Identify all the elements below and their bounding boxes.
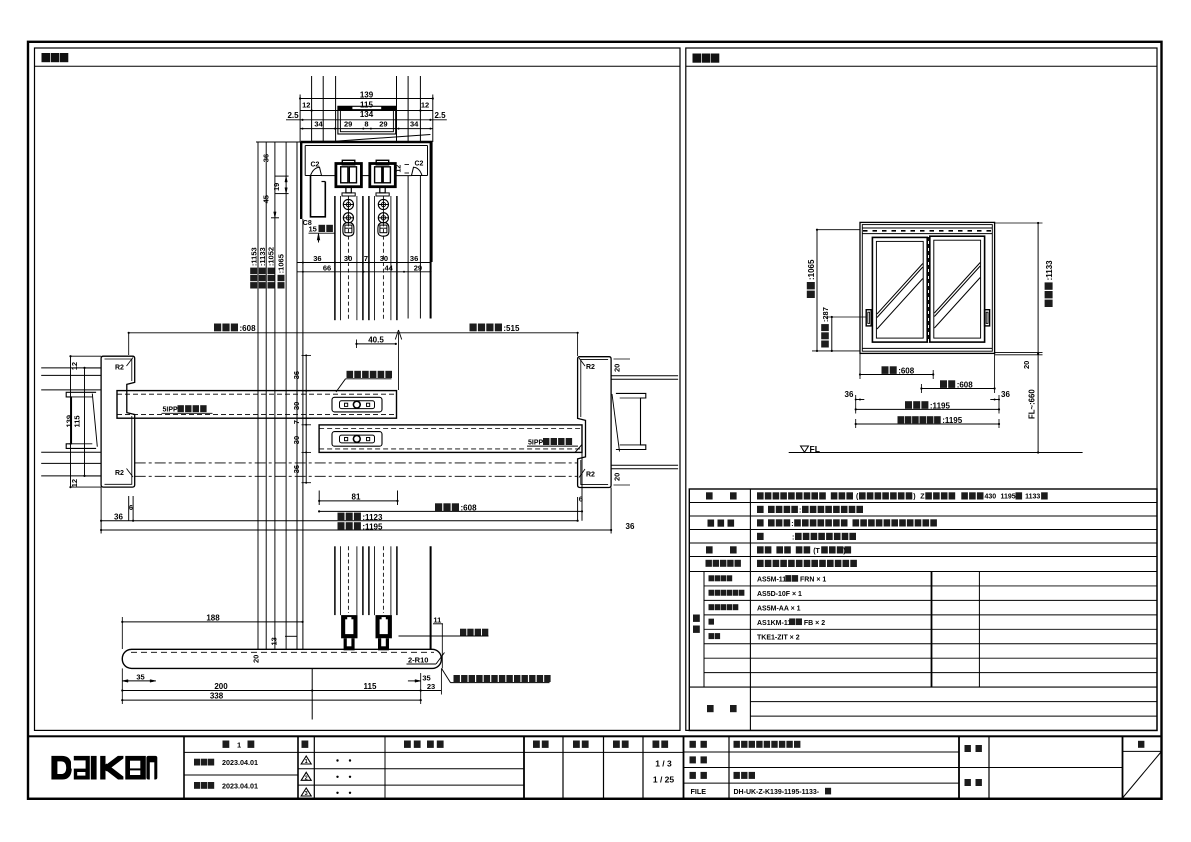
svg-text::515: :515 bbox=[503, 324, 520, 333]
svg-text:200: 200 bbox=[214, 682, 228, 691]
left wall stud C-channel bbox=[66, 392, 96, 448]
svg-text:1: 1 bbox=[237, 740, 241, 749]
window outer frame bbox=[860, 222, 995, 353]
svg-text:45: 45 bbox=[262, 195, 271, 203]
title 第1版 header bbox=[223, 741, 230, 748]
revision triangles bbox=[301, 756, 311, 764]
svg-text:115: 115 bbox=[364, 682, 377, 691]
dim 200 bbox=[122, 690, 312, 692]
revision rows bbox=[298, 768, 524, 770]
rotated height labels bbox=[250, 282, 257, 288]
備考 label bbox=[707, 705, 714, 712]
svg-text:30: 30 bbox=[292, 402, 301, 410]
svg-text:188: 188 bbox=[206, 613, 220, 622]
svg-text:1195: 1195 bbox=[1001, 494, 1016, 501]
roller hanger left bbox=[336, 164, 362, 187]
svg-text:FL~:660: FL~:660 bbox=[1028, 389, 1037, 419]
svg-text:2023.04.01: 2023.04.01 bbox=[222, 781, 258, 790]
svg-text:8: 8 bbox=[364, 119, 368, 128]
svg-text::: : bbox=[792, 534, 794, 541]
title block verticals bbox=[183, 736, 185, 798]
svg-text:1: 1 bbox=[305, 759, 308, 765]
plan bottom dim 81 bbox=[319, 500, 397, 502]
label 窓幅:608 plan top bbox=[214, 324, 221, 332]
svg-text:FRN × 1: FRN × 1 bbox=[800, 577, 826, 584]
upper sliding rail bar bbox=[117, 391, 397, 419]
spec table outer bbox=[689, 489, 1157, 731]
right wall break slash bbox=[612, 394, 620, 452]
dim line 139 vertical bbox=[70, 356, 72, 487]
svg-text:AS1KM-11: AS1KM-11 bbox=[757, 620, 791, 627]
right panel frame (front view) bbox=[686, 48, 1157, 730]
left wall lines upper section bbox=[296, 142, 298, 649]
lower sliding rail bar bbox=[319, 425, 582, 453]
right title rows bbox=[684, 751, 960, 753]
FL marker bbox=[801, 446, 809, 452]
right jamb inner line bbox=[581, 360, 608, 417]
head bottom left corner trim C2 bbox=[305, 167, 321, 175]
right height dim line 枠外高1133 bbox=[1037, 223, 1039, 453]
dim 139 top bbox=[300, 98, 433, 100]
svg-text:19: 19 bbox=[272, 183, 281, 191]
svg-text::1065: :1065 bbox=[807, 259, 816, 280]
title 承認検図作成縮尺 headers bbox=[533, 741, 540, 748]
svg-text:34: 34 bbox=[314, 119, 323, 128]
svg-text:AS5D-10F × 1: AS5D-10F × 1 bbox=[757, 591, 802, 598]
dim 13 rotated bbox=[285, 635, 297, 637]
right wall furring lines bbox=[407, 176, 409, 319]
head bottom line segments bbox=[322, 175, 336, 177]
dim 23 bbox=[421, 690, 442, 692]
note カウンター（メラミンポストフォーム） bbox=[442, 668, 451, 682]
roller hanger left stem bbox=[346, 187, 351, 193]
dim line 115 row bbox=[300, 110, 433, 112]
right sash panel bbox=[930, 236, 985, 342]
svg-text:35: 35 bbox=[136, 672, 144, 681]
svg-text:R2: R2 bbox=[115, 470, 124, 477]
svg-text:29: 29 bbox=[414, 263, 422, 272]
revision date dots bbox=[336, 759, 338, 761]
svg-text:134: 134 bbox=[360, 110, 374, 119]
window bottom rail band bbox=[862, 347, 992, 349]
title 名称 row bbox=[690, 741, 696, 748]
head frame inner cavity bbox=[305, 145, 427, 147]
spec row 形式 bbox=[706, 492, 713, 499]
right wall stud C-channel bbox=[616, 393, 646, 449]
title header row line bbox=[184, 751, 684, 753]
svg-text:36: 36 bbox=[313, 254, 321, 263]
svg-text:5IPP: 5IPP bbox=[528, 439, 544, 446]
svg-text:20: 20 bbox=[1022, 361, 1031, 369]
title 頁 bbox=[1138, 741, 1144, 748]
svg-text::1195: :1195 bbox=[362, 523, 383, 532]
svg-text:40.5: 40.5 bbox=[368, 335, 384, 344]
dim 40.5 bbox=[357, 343, 396, 345]
svg-text:2.5: 2.5 bbox=[434, 111, 446, 120]
svg-text::1065: :1065 bbox=[277, 254, 286, 273]
title 改訂日 row bbox=[194, 782, 200, 789]
svg-text::1052: :1052 bbox=[267, 247, 276, 266]
title 制定日 row bbox=[194, 759, 200, 766]
panel screw stack right bbox=[378, 199, 388, 209]
svg-text:36: 36 bbox=[410, 254, 418, 263]
plan bottom dim 枠外幅1195 bbox=[101, 529, 611, 531]
page diagonal bbox=[1123, 752, 1162, 798]
svg-text:2-R10: 2-R10 bbox=[408, 655, 428, 664]
ceiling structure vertical lines left group bbox=[311, 76, 313, 142]
svg-text:11: 11 bbox=[433, 615, 441, 624]
title 件名 bbox=[965, 745, 971, 752]
note 自動出戻装置付 bbox=[347, 371, 354, 378]
svg-text:34: 34 bbox=[410, 119, 419, 128]
svg-text:7: 7 bbox=[292, 420, 301, 424]
right panel title 正面図 bbox=[693, 54, 702, 63]
window head rail band bbox=[862, 227, 992, 229]
svg-text:36: 36 bbox=[292, 371, 301, 379]
dim 枠外寸:1195 bbox=[856, 408, 999, 410]
wall pocket trim C8 piece bbox=[311, 176, 326, 217]
svg-text:66: 66 bbox=[323, 263, 331, 272]
plan top dim line 窓幅608 / 有効開口515 bbox=[129, 332, 578, 334]
svg-text:): ) bbox=[843, 548, 845, 555]
dim line 34-29-8-29-34 row bbox=[300, 128, 433, 130]
svg-text:12: 12 bbox=[70, 479, 79, 487]
svg-text:36: 36 bbox=[1001, 390, 1010, 399]
title 施主 bbox=[965, 779, 971, 786]
svg-text:AS5M-11: AS5M-11 bbox=[757, 577, 786, 584]
left jamb inner line bbox=[105, 359, 132, 381]
DAIKEN logo bbox=[51, 756, 157, 780]
svg-text:2023.04.01: 2023.04.01 bbox=[222, 758, 258, 767]
left jamb profile bbox=[101, 356, 135, 487]
品番 sub labels and values bbox=[709, 575, 715, 581]
svg-text:3: 3 bbox=[305, 791, 308, 797]
right sash glass diagonals bbox=[934, 263, 980, 314]
sloped flashing line bbox=[335, 135, 430, 142]
svg-text:6: 6 bbox=[129, 505, 133, 512]
right panel title separator bbox=[686, 65, 1157, 67]
svg-text:Z: Z bbox=[920, 494, 925, 501]
svg-text:430: 430 bbox=[985, 494, 997, 501]
height dims top extension bbox=[256, 141, 301, 143]
svg-text:30: 30 bbox=[292, 436, 301, 444]
svg-text::1133: :1133 bbox=[1045, 260, 1054, 281]
head frame outer bbox=[301, 141, 433, 144]
label 有効開口:515 bbox=[470, 324, 477, 332]
svg-text:338: 338 bbox=[210, 692, 224, 701]
svg-text:1 / 3: 1 / 3 bbox=[655, 759, 672, 769]
svg-text:R2: R2 bbox=[115, 365, 124, 372]
dim line 115 vertical bbox=[84, 368, 86, 476]
pocket mounting flange left bbox=[338, 106, 353, 110]
svg-text:(T: (T bbox=[813, 548, 820, 555]
svg-text:C2: C2 bbox=[415, 161, 424, 168]
svg-text::1195: :1195 bbox=[930, 401, 951, 410]
spec row 仕上げ 1 パネル bbox=[757, 506, 764, 513]
svg-text:115: 115 bbox=[360, 101, 373, 110]
dim 338 bbox=[122, 699, 420, 701]
svg-text:81: 81 bbox=[352, 492, 361, 501]
plan bottom dim 窓幅608 bbox=[319, 510, 582, 512]
svg-text:): ) bbox=[913, 494, 915, 501]
left wall horizontal lines bbox=[41, 367, 101, 369]
svg-text:FB × 2: FB × 2 bbox=[804, 620, 825, 627]
dim 窓幅:608 right under window bbox=[921, 388, 994, 390]
vertical dim lines for heights bbox=[257, 142, 259, 650]
right wall thick line upper bbox=[430, 142, 432, 319]
svg-text::1123: :1123 bbox=[362, 513, 383, 522]
upper bar handle plate bbox=[332, 397, 382, 412]
svg-text:36: 36 bbox=[845, 390, 854, 399]
roller hanger right bbox=[370, 164, 396, 187]
spec table 備考 rows bbox=[750, 701, 1157, 703]
right sash handle bbox=[985, 310, 990, 326]
spec row カウンター label bbox=[706, 560, 712, 567]
svg-text:36: 36 bbox=[114, 513, 123, 522]
sliding panel sections (lower run) bbox=[334, 546, 336, 615]
right wall thick line lower bbox=[430, 546, 432, 649]
品番 label rotated bbox=[693, 615, 700, 622]
svg-text:2.5: 2.5 bbox=[287, 111, 299, 120]
roller hanger right stem bbox=[380, 187, 385, 193]
svg-text:20: 20 bbox=[613, 473, 622, 481]
FL line bbox=[789, 452, 1083, 454]
spec row 仕上げ 3 枠 bbox=[757, 533, 764, 540]
ceiling structure vertical lines right group bbox=[396, 76, 398, 142]
svg-text::1133: :1133 bbox=[258, 247, 267, 266]
dim 窓幅:608 left under window bbox=[860, 374, 933, 376]
hidden rail center lines bbox=[135, 462, 578, 464]
svg-text:44: 44 bbox=[385, 263, 394, 272]
lower bar end cap diagonal bbox=[575, 445, 582, 453]
svg-text:R2: R2 bbox=[586, 472, 595, 479]
svg-text:R2: R2 bbox=[586, 364, 595, 371]
svg-text:15: 15 bbox=[309, 225, 317, 234]
left sash handle bbox=[866, 310, 871, 326]
center meeting stile line bbox=[928, 237, 930, 342]
panel screw stack left (phillips heads) bbox=[343, 199, 353, 209]
svg-text:115: 115 bbox=[73, 415, 82, 427]
svg-text:DH-UK-Z-K139-1195-1133-: DH-UK-Z-K139-1195-1133- bbox=[734, 789, 820, 796]
dim 35 right bbox=[408, 680, 421, 682]
lower bar handle plate bbox=[332, 432, 382, 447]
left wall break slash bbox=[92, 394, 97, 447]
svg-text:12: 12 bbox=[421, 101, 429, 110]
guide pin assembly left bbox=[341, 615, 357, 638]
title 改訂履歴 header bbox=[404, 741, 411, 748]
title 品番 row bbox=[690, 756, 696, 763]
guide pin assembly right bbox=[376, 615, 392, 638]
svg-text::608: :608 bbox=[240, 324, 257, 333]
vertical dim stack left of plan (36 30 7 30 36) bbox=[305, 355, 307, 482]
svg-text:139: 139 bbox=[360, 91, 374, 100]
title 版 header bbox=[302, 741, 309, 748]
svg-text:2: 2 bbox=[305, 776, 308, 782]
right wall horizontal lines bbox=[611, 375, 678, 377]
dim 引手高:287 bbox=[831, 317, 833, 351]
left sash panel bbox=[872, 237, 927, 342]
svg-text:AS5M-AA × 1: AS5M-AA × 1 bbox=[757, 605, 801, 612]
svg-text:35: 35 bbox=[422, 673, 430, 682]
svg-text:7: 7 bbox=[364, 254, 368, 263]
left panel frame (section view) bbox=[35, 48, 681, 730]
svg-text::: : bbox=[791, 521, 793, 528]
svg-text:29: 29 bbox=[344, 119, 352, 128]
svg-text:12: 12 bbox=[302, 101, 310, 110]
left sash glass diagonals bbox=[877, 264, 923, 315]
dim 35 left bbox=[122, 680, 156, 682]
svg-text:36: 36 bbox=[626, 522, 635, 531]
dim 115 bottom bbox=[312, 690, 421, 692]
svg-text:30: 30 bbox=[380, 254, 388, 263]
svg-text:30: 30 bbox=[344, 254, 352, 263]
svg-text::1195: :1195 bbox=[942, 416, 963, 425]
right jamb profile bbox=[578, 357, 612, 488]
svg-text:23: 23 bbox=[427, 682, 435, 691]
pocket mounting flange right bbox=[381, 106, 396, 110]
svg-text:FILE: FILE bbox=[691, 787, 707, 796]
svg-text:TKE1-ZIT × 2: TKE1-ZIT × 2 bbox=[757, 634, 800, 641]
spec table vertical label divider bbox=[749, 489, 751, 731]
svg-text::608: :608 bbox=[898, 366, 915, 375]
dim 188 bbox=[122, 621, 302, 623]
svg-text:1 / 25: 1 / 25 bbox=[653, 775, 675, 785]
spec table value dividers bbox=[931, 572, 933, 688]
bottom extension verticals bbox=[121, 668, 123, 704]
svg-text:20: 20 bbox=[252, 655, 261, 663]
svg-text:29: 29 bbox=[379, 119, 387, 128]
left panel title separator bbox=[35, 65, 681, 67]
svg-text:12: 12 bbox=[70, 362, 79, 370]
plan bottom dim 枠内幅1123 bbox=[101, 520, 577, 522]
spec table 品番 rows bbox=[704, 585, 1157, 587]
spec row カウンター value bbox=[757, 560, 764, 567]
dim 窓高:1065 left bbox=[816, 230, 818, 351]
svg-text:20: 20 bbox=[613, 364, 622, 372]
svg-text:C2: C2 bbox=[311, 162, 320, 169]
head bottom right corner trim C2 bbox=[412, 167, 428, 175]
svg-text:13: 13 bbox=[270, 637, 279, 645]
dim line 2.5 row bbox=[286, 119, 447, 121]
counter slab bbox=[122, 649, 441, 668]
title block outer bbox=[28, 736, 1162, 798]
svg-text:1133: 1133 bbox=[1025, 494, 1040, 501]
spec rows 仕上げ label bbox=[708, 520, 715, 527]
spec table row lines bbox=[689, 502, 1157, 504]
sliding panel sections (upper run) bbox=[334, 196, 336, 320]
dim カウンター幅:1195 bbox=[856, 423, 999, 425]
svg-text:36: 36 bbox=[292, 465, 301, 473]
svg-text:5IPP: 5IPP bbox=[163, 407, 179, 414]
svg-text::608: :608 bbox=[957, 380, 974, 389]
svg-text::: : bbox=[799, 507, 801, 514]
spec table 品番 sub divider bbox=[703, 572, 705, 688]
svg-text::287: :287 bbox=[821, 307, 830, 322]
note ガイドピン bbox=[399, 635, 489, 637]
svg-text:36: 36 bbox=[262, 154, 271, 162]
upper track pocket box bbox=[338, 106, 396, 134]
svg-text::608: :608 bbox=[461, 504, 478, 513]
spec row 引手 bbox=[706, 546, 713, 553]
svg-text:FL: FL bbox=[810, 444, 820, 454]
left panel title 断面図 bbox=[42, 53, 51, 62]
title 図名 row bbox=[690, 772, 696, 779]
spec row 仕上げ 2 ガラス bbox=[757, 519, 764, 526]
